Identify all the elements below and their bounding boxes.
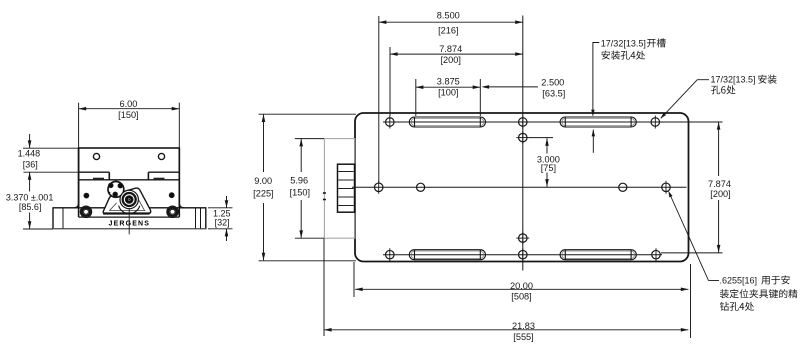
svg-text:[216]: [216] <box>438 25 458 35</box>
svg-text:20.00: 20.00 <box>510 281 533 291</box>
svg-text:[63.5]: [63.5] <box>542 88 565 98</box>
svg-text:2.500: 2.500 <box>541 78 564 88</box>
svg-text:5.96: 5.96 <box>290 175 308 185</box>
svg-text:1.448: 1.448 <box>18 148 41 158</box>
svg-text:[150]: [150] <box>118 110 138 120</box>
svg-text:[200]: [200] <box>710 189 730 199</box>
svg-text:17/32[13.5]: 17/32[13.5] <box>711 75 756 85</box>
svg-text:3.875: 3.875 <box>437 77 460 87</box>
svg-text:9.00: 9.00 <box>254 176 272 186</box>
svg-text:17/32[13.5]: 17/32[13.5] <box>601 38 646 48</box>
svg-text:7.874: 7.874 <box>439 44 462 54</box>
svg-text:[225]: [225] <box>253 189 273 199</box>
svg-text:3.370 ±.001: 3.370 ±.001 <box>6 192 53 202</box>
svg-text:[85.6]: [85.6] <box>19 202 42 212</box>
svg-text:[508]: [508] <box>511 291 531 301</box>
svg-text:7.874: 7.874 <box>708 179 731 189</box>
svg-text:[555]: [555] <box>513 332 533 342</box>
svg-text:[32]: [32] <box>215 217 230 227</box>
svg-text:6.00: 6.00 <box>119 99 137 109</box>
svg-text:[200]: [200] <box>440 55 460 65</box>
svg-text:[75]: [75] <box>541 163 556 173</box>
svg-text:[150]: [150] <box>290 188 310 198</box>
svg-text:21.83: 21.83 <box>512 321 535 331</box>
svg-text:.6255[16]: .6255[16] <box>720 275 758 285</box>
svg-text:JERGENS: JERGENS <box>109 220 151 227</box>
svg-text:8.500: 8.500 <box>437 11 460 21</box>
svg-text:[36]: [36] <box>23 159 38 169</box>
svg-text:[100]: [100] <box>438 88 458 98</box>
